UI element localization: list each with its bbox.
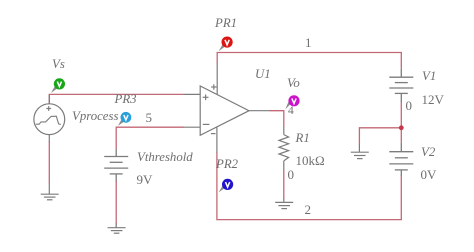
wire: junction down to V2 top (net 0) <box>400 128 402 143</box>
label Vprocess <box>72 110 118 123</box>
value 12V <box>422 93 444 106</box>
source Vs (Vprocess) <box>34 94 65 194</box>
ground left of V2 <box>351 145 369 159</box>
value 10kOhm <box>296 154 325 167</box>
op-amp + input marking <box>203 96 209 98</box>
op-amp V+ marking <box>211 86 216 88</box>
probe PR1 (red) <box>219 37 233 52</box>
label R1 <box>296 132 310 145</box>
net number 2 <box>305 203 312 216</box>
probe Vs (green) <box>51 78 65 93</box>
wire: op-amp V+ pin to V1 top (net 1) <box>217 53 401 69</box>
net number 0 (V1) <box>406 99 413 112</box>
value 0V <box>421 168 437 181</box>
wire: Vs top to op-amp + input (net 3) <box>49 94 184 103</box>
probe PR3 (azure) <box>118 112 131 126</box>
wire: V1 bottom to junction (net 0) <box>400 102 402 128</box>
resistor R1 <box>279 127 289 203</box>
op-amp U1 <box>184 63 270 154</box>
net number 0 (R1) <box>288 168 295 181</box>
net number 4 <box>288 106 294 118</box>
wire: Vs bottom to ground <box>48 141 50 184</box>
battery V1 <box>389 69 413 102</box>
op-amp V- marking <box>211 133 216 135</box>
ground below Vthreshold <box>108 228 126 234</box>
label Vo <box>287 77 300 90</box>
label U1 <box>255 68 271 81</box>
net number 5 <box>146 111 153 124</box>
junction node 0 <box>399 125 404 130</box>
wire: R1 bottom to ground (net 0) <box>283 171 285 199</box>
label PR1 <box>215 17 237 30</box>
value 9V <box>137 173 153 186</box>
wire: op-amp output to R1 top (net 4) <box>270 111 284 127</box>
label V2 <box>421 146 435 159</box>
battery V2 <box>389 143 413 176</box>
label PR2 <box>216 158 238 171</box>
wire: junction to ground left of V2 (net 0) <box>359 128 401 145</box>
label V1 <box>422 70 436 83</box>
op-amp - input marking <box>203 123 210 125</box>
label Vthreshold <box>137 151 193 164</box>
wire: Vthreshold bottom to ground <box>115 181 117 224</box>
probe Vo (magenta) <box>285 95 299 109</box>
ground below R1 <box>275 202 293 208</box>
ground below Vs <box>41 194 59 200</box>
probe PR2 (blue) <box>219 179 234 192</box>
label Vs <box>52 58 65 71</box>
wire: V2 bottom to op-amp V- pin (net 2) <box>217 153 401 220</box>
net number 1 <box>305 36 312 49</box>
wire: Vthreshold top to op-amp - input (net 5) <box>116 127 184 149</box>
label PR3 <box>115 93 137 106</box>
battery Vthreshold <box>104 149 128 228</box>
